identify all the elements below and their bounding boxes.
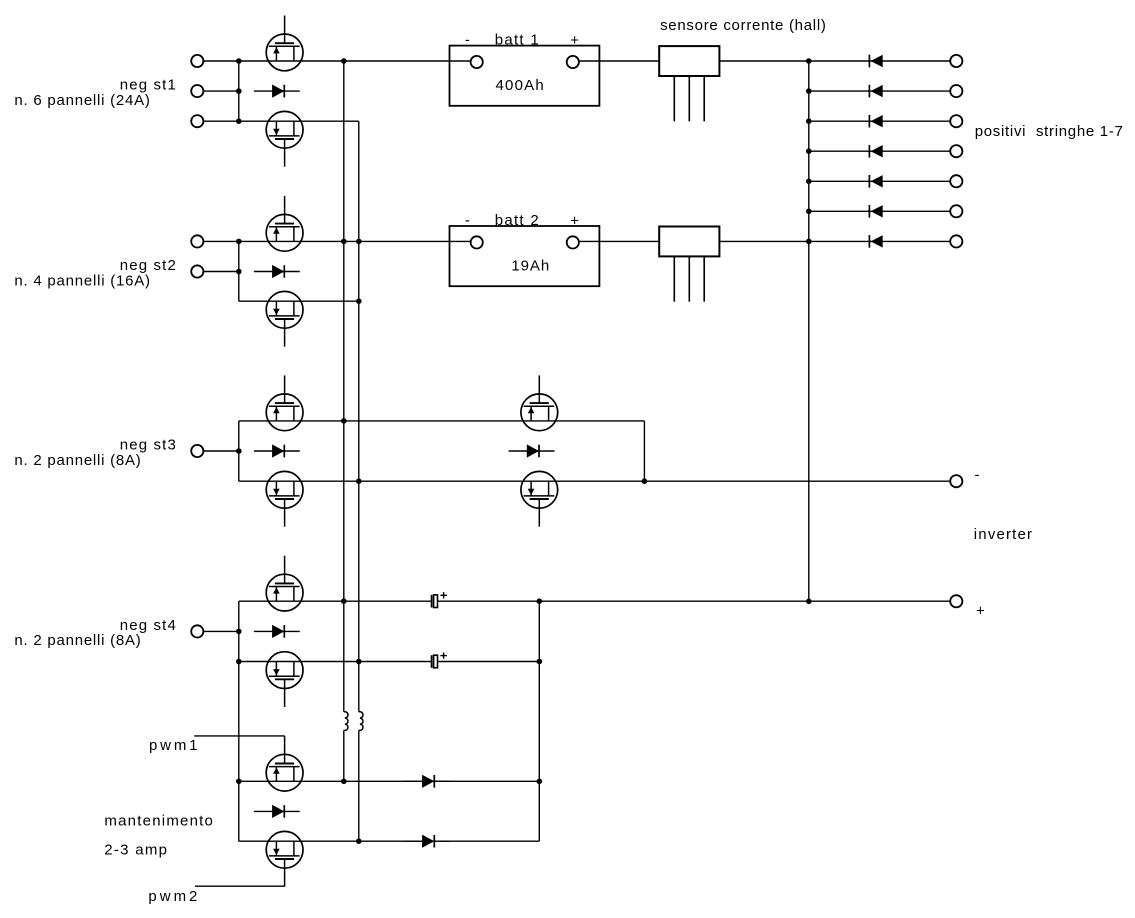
wire right positive bus	[808, 61, 810, 601]
wire string1 row1 to batt1	[203, 60, 470, 62]
junction right bus row 3	[806, 118, 812, 124]
mosfet Q1	[266, 16, 303, 71]
mosfet Q10	[266, 652, 303, 707]
junction right vertical plus row	[537, 598, 543, 604]
junction pwm1 row	[236, 779, 242, 785]
terminal inverter minus	[950, 475, 962, 487]
svg-text:positivi stringhe 1-7: positivi stringhe 1-7	[975, 123, 1123, 140]
battery batt 1 positive terminal	[567, 56, 579, 68]
mosfet Q7	[521, 375, 558, 430]
svg-text:400Ah: 400Ah	[496, 77, 544, 94]
svg-text:+: +	[570, 212, 579, 229]
diode D12 string output 3	[809, 115, 950, 128]
hall current sensor U2 body	[659, 227, 719, 257]
svg-text:mantenimento: mantenimento	[104, 813, 212, 830]
svg-text:+: +	[570, 32, 579, 49]
svg-text:n. 6 pannelli (24A): n. 6 pannelli (24A)	[14, 92, 150, 109]
terminal neg st3	[191, 445, 203, 457]
hall sensor U1 pin 1	[673, 76, 675, 121]
terminal neg st2 b	[191, 265, 203, 277]
junction group4 mid	[236, 629, 242, 635]
battery batt 1 negative terminal	[471, 56, 483, 68]
wire pwm2 row	[239, 840, 540, 842]
diode D15 string output 6	[809, 205, 950, 218]
wire string2 row1 to batt2	[203, 240, 470, 242]
junction right bus plus row	[806, 599, 812, 605]
hall sensor U1 pin 3	[703, 76, 705, 121]
battery batt 2 box	[450, 226, 600, 286]
terminal positive string 6	[950, 205, 962, 217]
battery batt 1 box	[450, 46, 600, 106]
diode D4	[509, 444, 555, 457]
mosfet Q3	[266, 196, 303, 251]
diode D16 string output 7	[809, 235, 950, 248]
junction group3 mid	[236, 448, 242, 454]
wire left bus group4	[238, 601, 240, 841]
junction group1 row1	[236, 58, 242, 64]
mosfet Q4	[266, 291, 303, 346]
mosfet Q6	[266, 471, 303, 526]
junction bus A group3 top	[341, 418, 347, 424]
terminal neg st1 a	[191, 55, 203, 67]
battery batt 2 positive terminal	[567, 236, 579, 248]
junction group1 row2	[236, 88, 242, 94]
svg-text:n. 2 pannelli (8A): n. 2 pannelli (8A)	[14, 452, 140, 469]
terminal positive string 2	[950, 85, 962, 97]
diode D5	[254, 625, 300, 638]
wire bus B upper	[358, 121, 360, 712]
junction group2 row2	[236, 269, 242, 275]
mosfet Q11	[266, 736, 303, 791]
wire pwm1 gate	[194, 735, 284, 737]
diode D7	[254, 805, 300, 818]
capacitor C2	[432, 652, 447, 667]
wire bus A upper	[343, 61, 345, 712]
svg-text:batt 1: batt 1	[495, 31, 539, 48]
mosfet Q5	[266, 375, 303, 430]
wire group4 top row left of C1	[239, 600, 432, 602]
diode D2	[254, 265, 300, 278]
mosfet Q9	[266, 556, 303, 611]
diode D8	[404, 835, 450, 848]
svg-text:-: -	[465, 212, 470, 229]
svg-text:-: -	[465, 31, 470, 48]
terminal neg st1 c	[191, 115, 203, 127]
battery batt 2 negative terminal	[471, 236, 483, 248]
wire pwm1 row	[239, 780, 540, 782]
wire hall1 to right bus	[719, 60, 808, 62]
hall sensor U1 pin 2	[688, 76, 690, 121]
junction bus B group3 bottom	[356, 478, 362, 484]
wire bus B lower	[358, 730, 360, 841]
terminal neg st1 b	[191, 85, 203, 97]
svg-text:batt 2: batt 2	[495, 212, 539, 229]
terminal inverter plus	[950, 595, 962, 607]
junction bus A top	[341, 58, 347, 64]
terminal neg st2 a	[191, 235, 203, 247]
capacitor C1	[432, 592, 447, 607]
wire string1 row2	[203, 90, 238, 92]
junction right bus row 4	[806, 148, 812, 154]
wire string4 input	[203, 630, 238, 632]
wire batt1 to hall1	[579, 60, 659, 62]
junction pwm1 right	[537, 779, 543, 785]
hall sensor U2 pin 3	[703, 256, 705, 301]
wire hall2 to right bus	[719, 240, 808, 242]
diode D13 string output 4	[809, 145, 950, 158]
mosfet Q8	[521, 471, 558, 526]
svg-text:-: -	[975, 466, 980, 483]
terminal positive string 5	[950, 175, 962, 187]
svg-text:sensore corrente (hall): sensore corrente (hall)	[660, 17, 826, 34]
junction bus B group4 row3	[356, 659, 362, 665]
svg-text:n. 2 pannelli (8A): n. 2 pannelli (8A)	[14, 632, 140, 649]
wire left bus group2	[238, 241, 240, 301]
junction bus A end	[341, 779, 347, 785]
wire group4 top row to inverter plus	[438, 600, 951, 602]
svg-text:19Ah: 19Ah	[511, 257, 549, 274]
junction bus A group4 top	[341, 598, 347, 604]
hall sensor U2 pin 2	[688, 256, 690, 301]
wire string3 input	[203, 450, 238, 452]
junction right bus row 7	[806, 239, 812, 245]
junction bus A batt2 row	[341, 239, 347, 245]
svg-text:inverter: inverter	[974, 526, 1032, 543]
wire group3 bottom row to inverter minus	[239, 480, 950, 482]
wire group3 right vertical	[643, 421, 645, 481]
diode D11 string output 2	[809, 85, 950, 98]
wire batt2 to hall2	[579, 240, 659, 242]
junction right bus row 2	[806, 88, 812, 94]
junction right bus row 6	[806, 209, 812, 215]
diode D14 string output 5	[809, 175, 950, 188]
inductor L2	[359, 712, 363, 731]
terminal neg st4	[191, 625, 203, 637]
junction right vertical row3	[537, 659, 543, 665]
junction right bus row 5	[806, 179, 812, 185]
svg-text:2-3 amp: 2-3 amp	[104, 841, 167, 858]
hall sensor U2 pin 1	[673, 256, 675, 301]
junction bus B end	[356, 838, 362, 844]
terminal positive string 7	[950, 235, 962, 247]
junction group2 row1	[236, 239, 242, 245]
junction bus B batt2 row	[356, 239, 362, 245]
wire string2 row2	[203, 271, 238, 273]
junction group3 right	[642, 478, 648, 484]
diode D3	[254, 444, 300, 457]
svg-text:pwm1: pwm1	[149, 737, 198, 754]
wire group3 top row	[239, 420, 645, 422]
wire bus A lower	[343, 730, 345, 781]
wire group4 right vertical	[538, 601, 540, 841]
wire left bus group3	[238, 421, 240, 481]
terminal positive string 3	[950, 115, 962, 127]
junction group4 row3	[236, 659, 242, 665]
wire left bus group1	[238, 61, 240, 121]
junction group1 row3	[236, 118, 242, 124]
terminal positive string 1	[950, 55, 962, 67]
mosfet Q2	[266, 111, 303, 166]
diode D1	[254, 85, 300, 98]
inductor L1	[344, 712, 348, 731]
svg-text:pwm2: pwm2	[148, 888, 197, 905]
svg-text:n. 4 pannelli (16A): n. 4 pannelli (16A)	[14, 272, 150, 289]
diode D6	[404, 775, 450, 788]
mosfet Q12	[266, 831, 303, 886]
wire group4 row3 left of C2	[239, 661, 432, 663]
terminal positive string 4	[950, 145, 962, 157]
wire pwm2 gate	[195, 885, 285, 887]
diode D10 string output 1	[809, 55, 950, 68]
junction right bus row 1	[806, 58, 812, 64]
junction bus B group2 row3	[356, 298, 362, 304]
wire string2 row3	[239, 300, 359, 302]
hall current sensor U1 body	[659, 46, 719, 76]
wire group4 row3 right of C2	[438, 661, 540, 663]
wire string1 row3	[203, 120, 358, 122]
svg-text:+: +	[976, 603, 985, 620]
